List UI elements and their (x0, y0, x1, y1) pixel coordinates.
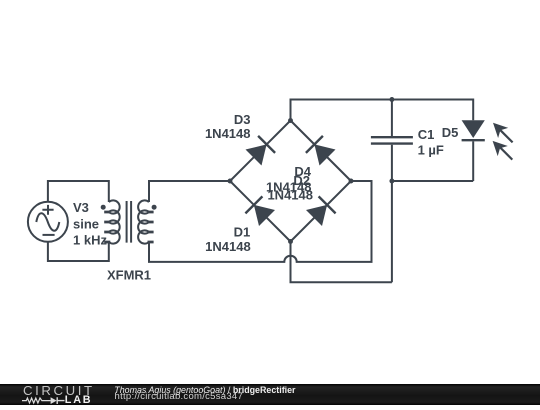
transformer XFMR1 secondary winding (138, 200, 149, 243)
svg-text:sine: sine (73, 216, 99, 231)
diode D1 (245, 196, 275, 226)
bridge edge wire D3 (left to top) (230, 121, 291, 182)
diode D4 (306, 136, 336, 166)
wire secondary bottom with hop to riser (149, 181, 372, 262)
bridge edge wire D4 (top to right) (291, 121, 352, 182)
bridge edge wire D1 (bottom to left) (230, 181, 291, 242)
footer bar (0, 384, 540, 405)
svg-text:1 µF: 1 µF (418, 143, 444, 158)
svg-text:D3: D3 (234, 112, 251, 127)
junction node left (228, 179, 233, 184)
svg-text:XFMR1: XFMR1 (107, 268, 151, 283)
bridge edge wire D2 (right to bottom) (291, 181, 352, 242)
diode D2 (306, 196, 336, 226)
junction node top (288, 118, 293, 123)
svg-text:V3: V3 (73, 200, 89, 215)
transformer XFMR1 secondary phase dot (152, 205, 157, 210)
junction node capacitor top (389, 97, 394, 102)
LED D5 light arrow upper (493, 123, 513, 143)
wire cap bottom to LED bottom (392, 180, 473, 182)
transformer XFMR1 primary winding (109, 200, 120, 243)
svg-text:C1: C1 (418, 127, 435, 142)
junction node capacitor bottom (389, 179, 394, 184)
LED D5 light arrow lower (493, 141, 513, 160)
url line (115, 391, 244, 402)
wire top node to top rail and LED (291, 100, 474, 121)
svg-text:D2: D2 (293, 173, 310, 188)
svg-text:1N4148: 1N4148 (205, 239, 251, 254)
LED D5 (462, 120, 485, 181)
wire source loop top (48, 181, 109, 203)
transformer XFMR1 core (127, 201, 132, 243)
diode D3 (246, 136, 276, 166)
transformer XFMR1 primary phase dot (101, 205, 106, 210)
svg-text:D1: D1 (234, 225, 251, 240)
wire secondary top to bridge left node (149, 181, 230, 202)
wire source loop bottom (48, 241, 109, 261)
junction node bottom (288, 239, 293, 244)
svg-text:1N4148: 1N4148 (267, 188, 313, 203)
svg-text:1 kHz: 1 kHz (73, 233, 107, 248)
capacitor C1 (371, 100, 413, 283)
wire bridge bottom node down and right (291, 242, 392, 283)
CircuitLab logo resistor-diode line (0, 384, 95, 405)
junction node right (349, 179, 354, 184)
svg-text:D5: D5 (442, 125, 459, 140)
svg-text:1N4148: 1N4148 (205, 126, 251, 141)
attribution line (114, 385, 295, 395)
CircuitLab logo word CIRCUIT (23, 383, 95, 398)
CircuitLab logo word LAB (65, 394, 93, 406)
voltage source V3 (28, 202, 68, 242)
